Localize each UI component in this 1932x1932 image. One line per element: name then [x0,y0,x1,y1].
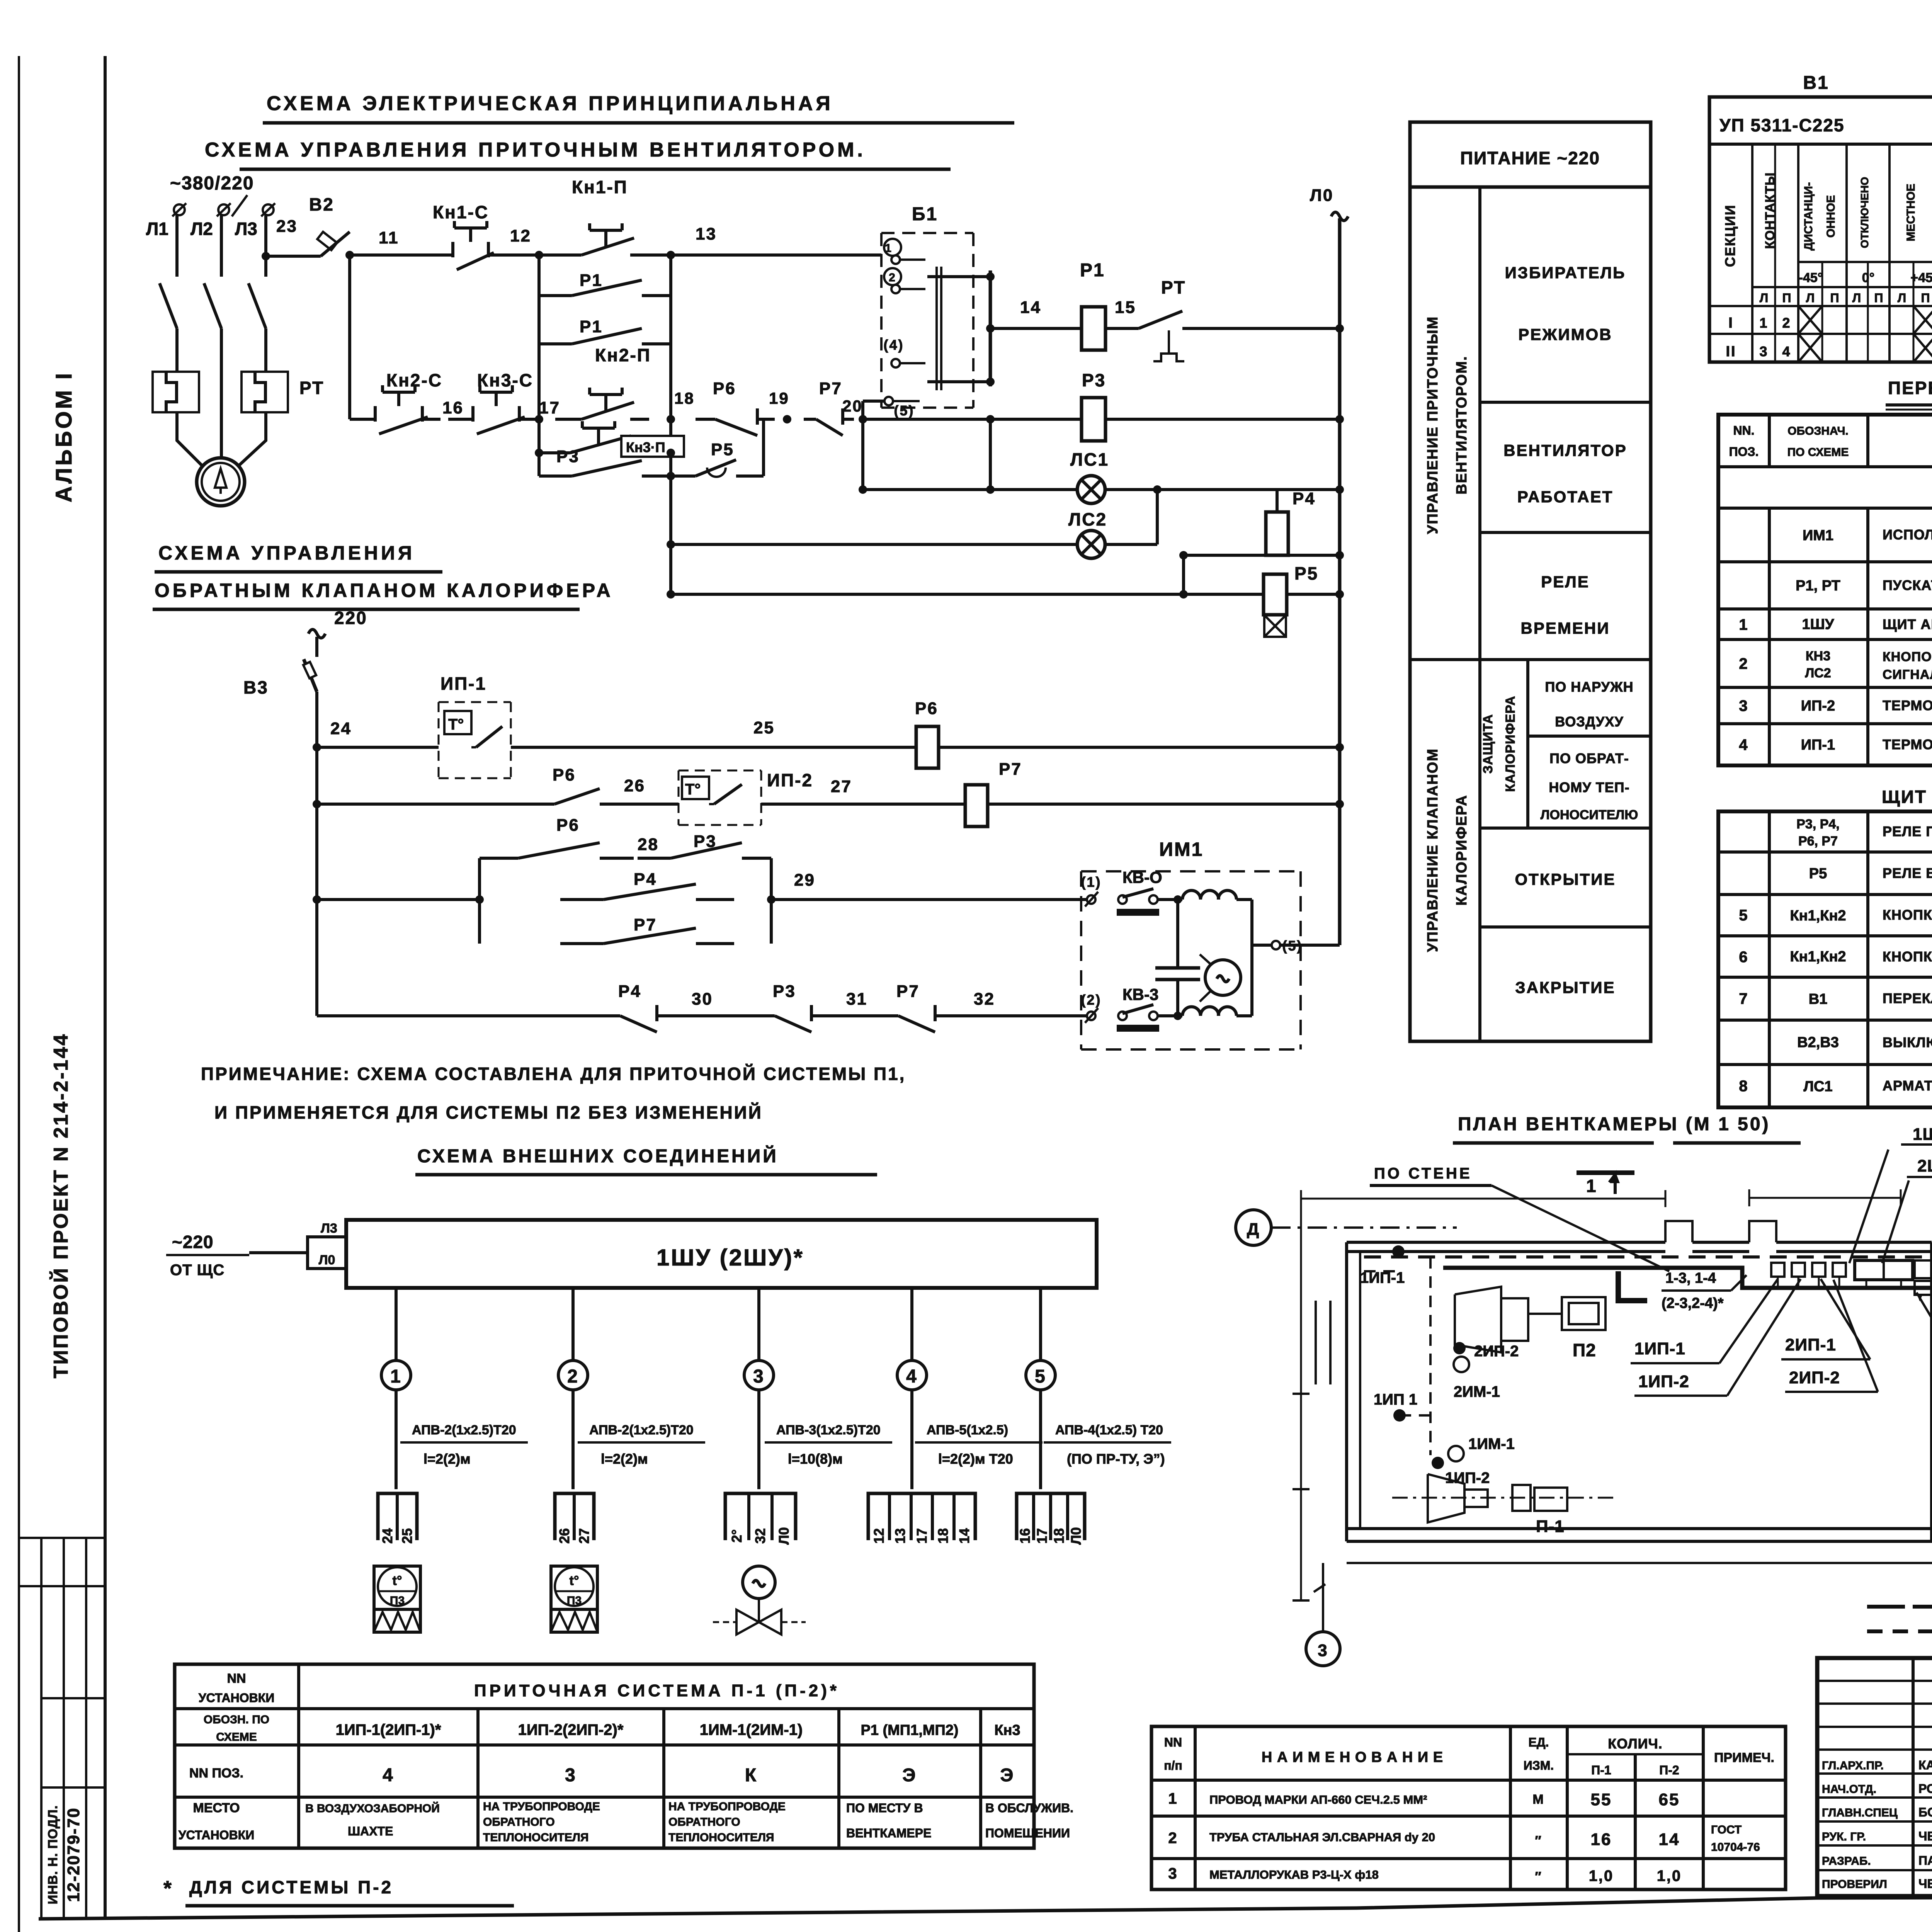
wire Л1 to motor [177,412,203,466]
svg-text:55: 55 [1591,1790,1612,1809]
svg-text:ОБРАТНЫМ КЛАПАНОМ КАЛОРИФЕ: ОБРАТНЫМ КЛАПАНОМ КАЛОРИФЕРА [155,580,614,601]
drop wire 5 [1039,1288,1042,1361]
svg-text:ЧЕРНЯХОВСКИЙ: ЧЕРНЯХОВСКИЙ [1918,1877,1932,1891]
table В1 grid [1709,97,1932,362]
svg-text:I: I [1728,315,1734,331]
svg-text:ИМ1: ИМ1 [1803,527,1833,544]
equipment table block1 grid [1718,415,1932,765]
sensor dot 1ИП-2 plan [1432,1457,1444,1469]
wire 11 [350,253,434,257]
svg-text:27: 27 [576,1528,592,1544]
svg-text:П: П [1874,291,1883,305]
svg-text:25: 25 [399,1528,415,1544]
svg-text:П: П [1830,291,1839,305]
breaker blade Л2 [204,283,221,328]
svg-text:ЩИТ АВТОМАТИЗАЦИИ 1 ШУ: ЩИТ АВТОМАТИЗАЦИИ 1 ШУ [1882,787,1932,807]
node D mid [667,472,675,480]
sensor dot 1ИП-1 plan [1392,1245,1405,1258]
svg-text:1ИП-2(2ИП-2)*: 1ИП-2(2ИП-2)* [518,1721,624,1738]
svg-text:1ШУ: 1ШУ [1913,1125,1932,1144]
svg-text:4: 4 [1782,344,1791,359]
svg-text:19: 19 [769,389,789,407]
svg-text:ПО НАРУЖН: ПО НАРУЖН [1545,679,1633,695]
phase terminal Л1 [174,204,185,215]
contact Р3 NC bottom [757,1014,775,1017]
svg-text:13: 13 [892,1528,908,1544]
svg-text:Э: Э [902,1765,917,1786]
svg-text:2: 2 [567,1366,579,1387]
svg-text:-45°: -45° [1799,270,1823,285]
svg-text:ТЕРМОМЕТР ЭЛЕКТРОКОНТАКТН.: ТЕРМОМЕТР ЭЛЕКТРОКОНТАКТН. [1883,736,1932,752]
inductor lower [1182,1007,1201,1016]
svg-text:Л0: Л0 [1068,1527,1084,1544]
svg-text:ВЫКЛЮЧАТЕЛЬ АВТОМАТИЧ.: ВЫКЛЮЧАТЕЛЬ АВТОМАТИЧ. [1883,1034,1932,1050]
motor ИМ1 [1205,960,1241,995]
svg-text:1ШУ (2ШУ)*: 1ШУ (2ШУ)* [656,1245,804,1270]
svg-text:НОМУ ТЕП-: НОМУ ТЕП- [1549,779,1629,795]
svg-text:ТИПОВОЙ ПРОЕКТ N 214-2-144: ТИПОВОЙ ПРОЕКТ N 214-2-144 [49,1033,72,1378]
svg-text:2ИМ-1: 2ИМ-1 [1454,1383,1500,1400]
svg-text:3: 3 [565,1765,577,1786]
svg-text:l=10(8)м: l=10(8)м [788,1451,843,1467]
wire 32 [951,1014,1087,1017]
svg-text:29: 29 [794,871,815,889]
node 18 [667,415,675,423]
wire 29 [771,898,1087,901]
svg-text:УП 5311-С225: УП 5311-С225 [1719,115,1845,135]
svg-text:0°: 0° [1862,270,1875,285]
svg-text:Л3: Л3 [235,219,257,239]
terminal group 3 (2° 32 Л0) [725,1493,796,1540]
svg-text:Л0: Л0 [319,1253,335,1267]
wire В2 branch down [348,255,351,419]
svg-text:РТ: РТ [299,378,324,398]
svg-text:1ИП-1: 1ИП-1 [1634,1339,1685,1358]
svg-text:п/п: п/п [1164,1759,1182,1772]
svg-text:ПОЗ.: ПОЗ. [1729,445,1759,459]
svg-text:Р3: Р3 [773,982,796,1001]
svg-text:ИСПОЛНИТЕЛЬНЫЙ МЕХАНИЗМ: ИСПОЛНИТЕЛЬНЫЙ МЕХАНИЗМ [1883,526,1932,543]
actuator ИМ1 dashed box [1081,870,1301,872]
svg-text:ГЛ.АРХ.ПР.: ГЛ.АРХ.ПР. [1822,1759,1884,1772]
svg-text:1: 1 [1586,1176,1597,1196]
terminal group 1 (24 25) [378,1493,417,1540]
svg-text:КАЛОРИФЕРА: КАЛОРИФЕРА [1503,696,1518,792]
pushbutton Кн1-П [555,253,582,257]
svg-text:2: 2 [1782,315,1791,331]
plan right wall [1930,1242,1932,1541]
svg-text:30: 30 [692,990,713,1009]
svg-text:ЛС1: ЛС1 [1070,449,1109,469]
svg-text:II: II [1726,344,1736,360]
svg-text:NN: NN [1164,1735,1182,1749]
svg-text:ПРИТОЧНАЯ СИСТЕМА П-1 (П-2): ПРИТОЧНАЯ СИСТЕМА П-1 (П-2)* [474,1681,840,1700]
svg-text:УПРАВЛЕНИЕ ПРИТОЧНЫМ: УПРАВЛЕНИЕ ПРИТОЧНЫМ [1425,316,1441,534]
svg-text:ИМ1: ИМ1 [1159,838,1203,860]
svg-text:ПЛАН ВЕНТКАМЕРЫ (М 1 50): ПЛАН ВЕНТКАМЕРЫ (М 1 50) [1458,1114,1770,1134]
wire supply to Л3Л0 box [249,1251,308,1254]
svg-text:~380/220: ~380/220 [170,173,254,194]
svg-text:65: 65 [1659,1790,1680,1809]
svg-text:ВЕНТИЛЯТОР: ВЕНТИЛЯТОР [1503,441,1627,459]
svg-text:t°: t° [570,1573,579,1588]
bus Л0 [1338,218,1342,945]
svg-text:24: 24 [330,719,352,738]
contact Р7 branch [560,942,604,945]
sensor dot 1ИП-1 lower [1393,1409,1406,1422]
svg-text:1ИП-2: 1ИП-2 [1445,1469,1490,1486]
svg-text:Кн3-С: Кн3-С [477,370,533,390]
svg-text:2: 2 [889,271,896,284]
svg-text:ТЕПЛОНОСИТЕЛЯ: ТЕПЛОНОСИТЕЛЯ [483,1831,588,1844]
actuator circle 1ИМ-1 [1448,1446,1464,1461]
svg-text:Э: Э [1000,1765,1014,1786]
svg-text:РАЗРАБ.: РАЗРАБ. [1822,1855,1871,1867]
wire 26 [618,803,679,806]
svg-text:ЛОНОСИТЕЛЮ: ЛОНОСИТЕЛЮ [1541,808,1638,822]
svg-text:СХЕМА УПРАВЛЕНИЯ: СХЕМА УПРАВЛЕНИЯ [158,542,415,564]
page frame left sidebar line [104,56,107,1920]
svg-text:ГЛАВН.СПЕЦ: ГЛАВН.СПЕЦ [1822,1806,1898,1819]
wire vertical 1736 down [669,476,672,594]
wire branch P1 selfhold [537,255,541,296]
wire Р4 bottom rung [1184,554,1340,557]
wire Р5 rung [671,593,1264,596]
page frame bottom line [39,1896,1932,1919]
svg-text:1ИП-2: 1ИП-2 [1638,1372,1689,1391]
svg-text:7: 7 [1739,990,1748,1007]
motor M [197,458,245,506]
contact Р1 selfhold [539,294,572,297]
wire 25 [511,746,916,749]
node 23 junction [262,252,270,260]
svg-text:16: 16 [1017,1528,1033,1544]
svg-text:Т°: Т° [448,716,464,733]
svg-text:12: 12 [510,226,531,245]
svg-text:ПРИМЕЧАНИЕ: СХЕМА СОСТАВЛЕ: ПРИМЕЧАНИЕ: СХЕМА СОСТАВЛЕНА ДЛЯ ПРИТОЧН… [201,1064,906,1084]
limit switch КВ-3 [1118,1012,1127,1020]
plan left dim line [1300,1199,1302,1600]
wire КВ-О to node [1158,898,1182,901]
svg-text:1ШУ: 1ШУ [1802,616,1834,633]
pushbutton contact Кн3-П [539,451,570,454]
node 2995 [1153,485,1162,494]
wire Л3 to motor [240,412,266,465]
sidebar bottom block lines [40,1538,43,1919]
svg-text:Р7: Р7 [634,915,657,934]
svg-text:ОТКЛЮЧЕНО: ОТКЛЮЧЕНО [1859,177,1871,248]
svg-text:П-1: П-1 [1536,1517,1565,1536]
svg-text:1,0: 1,0 [1589,1867,1614,1884]
svg-text:Р3: Р3 [556,447,580,466]
svg-text:В2,В3: В2,В3 [1797,1034,1839,1051]
svg-text:2: 2 [1168,1830,1178,1847]
plan bottom outer line [1347,1562,1932,1564]
materials table grid [1151,1726,1786,1889]
svg-text:1: 1 [885,242,893,255]
table приточная grid [175,1664,1034,1848]
wire 14 [990,327,1081,330]
wire branch P1 second [537,296,541,419]
contact Р4 NC bottom [603,1014,620,1017]
svg-text:Р1: Р1 [1080,260,1105,281]
svg-text:ИП-1: ИП-1 [440,673,486,694]
svg-text:АПВ-4(1х2.5) Т20: АПВ-4(1х2.5) Т20 [1055,1423,1163,1437]
svg-text:NN: NN [227,1671,246,1686]
svg-text:ОТКРЫТИЕ: ОТКРЫТИЕ [1515,870,1616,888]
svg-text:ПИТАНИЕ ~220: ПИТАНИЕ ~220 [1460,148,1600,168]
svg-text:Кн3: Кн3 [994,1722,1020,1738]
svg-text:ПАНЮШКИН: ПАНЮШКИН [1918,1854,1932,1867]
svg-text:ИП-2: ИП-2 [767,770,813,790]
svg-text:1: 1 [1739,616,1748,633]
contact Р6 branch [480,857,518,860]
svg-text:3: 3 [1739,697,1748,714]
svg-text:Кн2-П: Кн2-П [595,345,651,365]
svg-text:Кн1-П: Кн1-П [572,177,628,197]
svg-text:ВРЕМЕНИ: ВРЕМЕНИ [1521,619,1610,637]
plan box МП [1915,1260,1932,1278]
Б1 terminal 1 [884,239,901,256]
svg-text:32: 32 [752,1528,768,1544]
svg-text:10704-76: 10704-76 [1711,1841,1760,1854]
svg-text:ШАХТЕ: ШАХТЕ [348,1824,393,1838]
svg-text:ИЗМ.: ИЗМ. [1524,1759,1554,1772]
svg-text:Л: Л [1760,291,1768,305]
svg-text:Р4: Р4 [618,982,641,1001]
svg-text:16: 16 [442,398,464,417]
wire vertical 2233 [861,401,864,490]
wire Л1 mid [175,328,179,372]
svg-text:АПВ-2(1х2.5)Т20: АПВ-2(1х2.5)Т20 [412,1423,516,1437]
svg-text:РУК. ГР.: РУК. ГР. [1822,1830,1866,1843]
svg-text:8: 8 [1739,1078,1748,1095]
inductor upper [1182,891,1201,900]
svg-text:Р6: Р6 [915,699,938,718]
lamp ЛС2 [671,543,1077,546]
svg-text:АЛЬБОМ I: АЛЬБОМ I [51,371,77,502]
svg-text:В ВОЗДУХОЗАБОРНОЙ: В ВОЗДУХОЗАБОРНОЙ [305,1802,440,1815]
title block rows left [1817,1680,1932,1682]
svg-text:РЕЛЕ ПРОМЕЖУТОЧНОЕ: РЕЛЕ ПРОМЕЖУТОЧНОЕ [1883,823,1932,839]
svg-text:АПВ-2(1х2.5)Т20: АПВ-2(1х2.5)Т20 [589,1423,694,1437]
svg-text:14: 14 [1659,1830,1680,1849]
svg-text:Р7: Р7 [999,760,1022,779]
actuator circle 2ИМ-1 [1454,1357,1469,1372]
sensor П3 no2 [551,1566,597,1609]
svg-text:В3: В3 [243,677,269,697]
thermostat ИП-2 [679,770,761,772]
limit switch КВ-О [1118,895,1127,904]
pushbutton Кн2-С [350,418,375,421]
wire 13 [649,253,881,257]
svg-text:Л: Л [1852,291,1861,305]
svg-text:П: П [1782,291,1791,305]
svg-text:П2: П2 [1573,1340,1596,1360]
svg-text:4: 4 [1739,736,1748,753]
svg-text:20: 20 [842,397,863,415]
contact РТ thermal [1139,311,1182,328]
svg-text:КНОПКА УПРАВЛЕНИЯ: КНОПКА УПРАВЛЕНИЯ [1883,949,1932,964]
svg-text:2ИП-1: 2ИП-1 [1785,1335,1836,1354]
svg-text:(4): (4) [884,337,904,353]
svg-text:КОНТАКТЫ: КОНТАКТЫ [1763,172,1777,249]
plan cabinets 1ШУ 2ШУ [1855,1260,1913,1280]
svg-text:УПРАВЛЕНИЕ КЛАПАНОМ: УПРАВЛЕНИЕ КЛАПАНОМ [1425,748,1441,952]
svg-text:КОЛИЧ.: КОЛИЧ. [1608,1736,1663,1752]
svg-text:НА ТРУБОПРОВОДЕ: НА ТРУБОПРОВОДЕ [483,1800,600,1813]
svg-text:ЗАКРЫТИЕ: ЗАКРЫТИЕ [1515,978,1615,997]
terminal group 4 (12 13 17 18 14) [868,1493,975,1540]
plan electric line [1443,1268,1930,1288]
contact Р7 NC bottom [881,1014,898,1017]
svg-text:НАЧ.ОТД.: НАЧ.ОТД. [1822,1783,1876,1796]
plan bottom dim ticks [1293,1599,1310,1602]
wire 25 to bus [939,746,1340,749]
svg-text:ЩИТ АВТОМАТИЗАЦИИ: ЩИТ АВТОМАТИЗАЦИИ [1883,616,1932,632]
plan bottom wall [1347,1527,1932,1530]
svg-text:24: 24 [379,1528,395,1544]
svg-text:4: 4 [906,1366,918,1387]
svg-text:1ИМ-1(2ИМ-1): 1ИМ-1(2ИМ-1) [700,1721,803,1738]
svg-text:В1: В1 [1809,991,1828,1007]
contact Р1 lower [539,342,572,345]
svg-text:И ПРИМЕНЯЕТСЯ ДЛЯ СИСТЕ: И ПРИМЕНЯЕТСЯ ДЛЯ СИСТЕМЫ П2 БЕЗ ИЗМЕНЕН… [214,1102,763,1122]
wire branch D [537,453,541,476]
svg-text:17: 17 [1034,1528,1050,1544]
svg-text:Кн3·П: Кн3·П [626,439,665,455]
axis circle 3 [1306,1632,1340,1666]
svg-text:П-2: П-2 [1659,1763,1679,1777]
svg-text:МЕСТНОЕ: МЕСТНОЕ [1905,184,1917,241]
drop wire lower 5 [1039,1390,1042,1489]
title block outer [1817,1658,1932,1896]
svg-text:3: 3 [1168,1865,1178,1882]
valve actuator symbol [743,1566,775,1599]
plan left wall [1345,1242,1348,1541]
svg-text:ПОМЕЩЕНИИ: ПОМЕЩЕНИИ [985,1826,1070,1840]
contact Р5 time [671,474,696,478]
bus В3 supply [308,629,325,638]
svg-text:БОРОДКИН: БОРОДКИН [1918,1805,1932,1819]
plan capillary dashed [1364,1255,1924,1259]
table ПИТАНИЕ body grid [1410,187,1651,1041]
svg-text:КНОПОЧНАЯ СТАНЦИЯ С: КНОПОЧНАЯ СТАНЦИЯ С [1883,650,1932,664]
svg-text:В1: В1 [1803,73,1829,93]
wire 29 left [317,898,480,901]
drop wire 1 [395,1288,398,1361]
svg-text:Р6: Р6 [553,765,576,784]
svg-text:ЛС2: ЛС2 [1805,666,1831,680]
svg-text:МЕСТО: МЕСТО [193,1801,240,1815]
svg-text:П3: П3 [567,1594,582,1607]
node B left [535,415,543,423]
svg-text:ОТ ЩС: ОТ ЩС [170,1262,224,1279]
svg-text:ОБРАТНОГО: ОБРАТНОГО [668,1816,740,1828]
capacitor ИМ1 [1176,900,1179,968]
svg-text:26: 26 [624,776,645,795]
circle node 4 [897,1361,927,1390]
thermal element РТ phase3 [241,372,288,412]
svg-text:МЕТАЛЛОРУКАВ Р3-Ц-Х ф18: МЕТАЛЛОРУКАВ Р3-Ц-Х ф18 [1209,1868,1379,1881]
drop wire lower 1 [395,1390,398,1489]
svg-text:2ШУ: 2ШУ [1917,1156,1932,1175]
svg-text:28: 28 [638,835,659,854]
svg-text:ПРИМЕЧ.: ПРИМЕЧ. [1714,1750,1774,1765]
breaker blade Л1 [160,283,177,328]
svg-text:ИНВ. Н. ПОДЛ.: ИНВ. Н. ПОДЛ. [46,1805,60,1905]
wire phase Л1 upper [175,215,179,277]
axis circle Д [1236,1210,1271,1245]
circle node 2 [558,1361,588,1390]
svg-text:РТ: РТ [1161,277,1186,298]
svg-text:(2-3,2-4)*: (2-3,2-4)* [1662,1295,1724,1311]
terminal group 5 (16 17 18 Л0) [1017,1493,1085,1540]
svg-text:ЛС2: ЛС2 [1068,509,1107,529]
svg-text:2ИП-2: 2ИП-2 [1789,1368,1840,1387]
svg-text:СХЕМА УПРАВЛЕНИЯ ПРИТОЧНЫМ: СХЕМА УПРАВЛЕНИЯ ПРИТОЧНЫМ ВЕНТИЛЯТОРОМ. [205,139,866,161]
node rung C ends [535,449,543,457]
svg-text:СИГНАЛЬНОЙ АРМАТУРОЙ: СИГНАЛЬНОЙ АРМАТУРОЙ [1883,667,1932,682]
svg-text:Р7: Р7 [819,379,842,398]
svg-text:ПЕРЕЧЕНЬ ЭЛЕКТРООБОРУДОВАНИЯ: ПЕРЕЧЕНЬ ЭЛЕКТРООБОРУДОВАНИЯ (ДЛЯ СИСТЕМ… [1888,378,1932,398]
wire Р5 contact up [762,419,765,476]
svg-text:″: ″ [1535,1833,1542,1848]
svg-text:Л0: Л0 [776,1527,792,1544]
svg-text:Р5: Р5 [1294,563,1318,583]
wire КВ-3 to node [1158,1014,1182,1017]
svg-text:ОБОЗН. ПО: ОБОЗН. ПО [204,1713,269,1726]
wire 31-32 [827,1014,881,1017]
wire branch Кн3П [537,419,541,453]
svg-text:ПО СТЕНЕ: ПО СТЕНЕ [1374,1165,1472,1182]
svg-text:Р6: Р6 [556,816,580,835]
bold L mark [1618,1271,1647,1301]
plan capillary riser dashed [1429,1257,1432,1455]
contact Р4 branch [560,898,604,901]
svg-text:Л1: Л1 [146,219,168,239]
svg-text:Л0: Л0 [1310,186,1333,205]
contact Р6 rung26 [317,803,533,806]
svg-text:″: ″ [1535,1869,1542,1884]
cabinet box 1ШУ(2ШУ) [346,1220,1097,1288]
svg-text:К: К [745,1765,757,1786]
svg-text:П: П [1921,291,1930,305]
svg-text:14: 14 [956,1528,972,1544]
svg-text:2°: 2° [729,1529,745,1543]
svg-text:1-3, 1-4: 1-3, 1-4 [1665,1270,1716,1286]
svg-text:Р6: Р6 [713,379,736,398]
svg-text:ВЕНТКАМЕРЕ: ВЕНТКАМЕРЕ [846,1826,931,1840]
svg-text:5: 5 [1739,907,1748,924]
svg-text:ПО МЕСТУ В: ПО МЕСТУ В [846,1801,923,1815]
svg-text:26: 26 [556,1528,572,1544]
svg-text:РОМАНОВ: РОМАНОВ [1918,1782,1932,1796]
coil Р3 [1082,398,1105,441]
svg-text:В ОБСЛУЖИВ.: В ОБСЛУЖИВ. [985,1801,1073,1815]
contact Р3 branch [638,857,671,860]
phase terminal Л3 [263,204,274,215]
svg-text:NN.: NN. [1733,423,1754,437]
svg-text:1: 1 [1168,1790,1178,1807]
coil Р1 main [1082,307,1105,350]
svg-text:Р5: Р5 [1809,866,1827,882]
svg-text:4: 4 [383,1765,394,1786]
wire Л3 mid [264,328,267,372]
svg-text:КВ-3: КВ-3 [1122,985,1158,1003]
coil Р7 [965,785,988,827]
svg-text:ВОЗДУХУ: ВОЗДУХУ [1555,714,1624,730]
